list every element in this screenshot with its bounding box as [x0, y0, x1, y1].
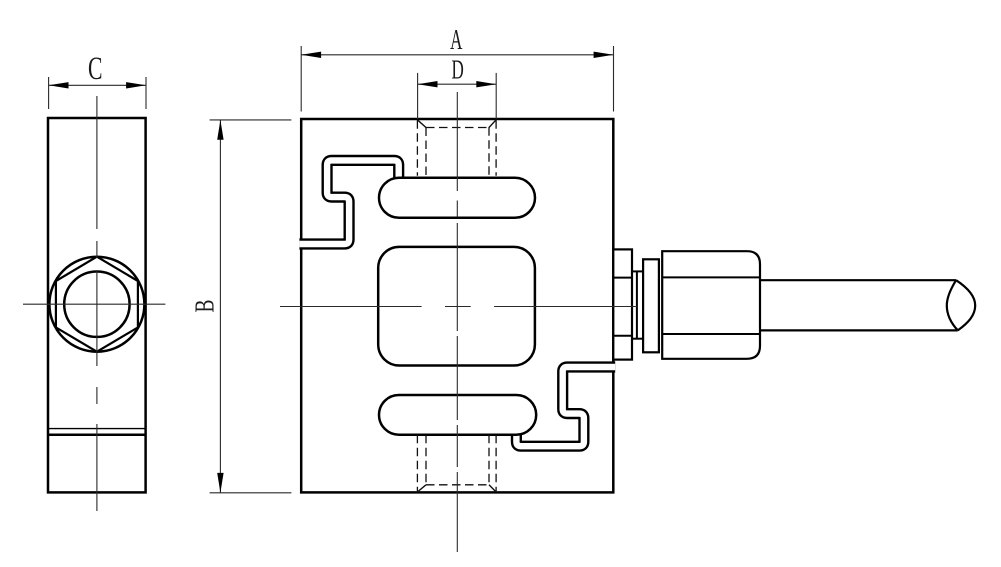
dimension A arrow right	[594, 52, 614, 58]
left view body	[48, 118, 146, 492]
cable end break left arc	[947, 280, 958, 330]
top hole chamfer left	[417, 120, 426, 128]
gland washer top edge	[632, 270, 643, 272]
bottom tapped hole hidden line inner left	[425, 435, 427, 485]
dimension C extension line right	[145, 77, 147, 109]
left view parting line upper	[48, 428, 146, 430]
dimension B extension line top	[210, 119, 292, 121]
bottom hole chamfer right	[489, 485, 496, 492]
svg-text:A: A	[450, 25, 463, 56]
gland washer divider	[636, 271, 638, 338]
top tapped hole hidden chamfer base	[426, 127, 489, 129]
dimension D line	[418, 83, 497, 85]
dimension C line	[49, 84, 146, 86]
right view vertical centerline	[456, 92, 458, 552]
bottom tapped hole hidden line outer left	[416, 435, 418, 492]
gland cap shoulder line upper	[662, 276, 760, 278]
gland washer bottom edge	[632, 338, 643, 340]
hex boss outer circle	[49, 257, 144, 352]
dimension B extension line bottom	[210, 492, 292, 494]
S-cut slot lower-right black	[516, 367, 615, 446]
top tapped hole hidden line outer left	[416, 120, 418, 176]
svg-text:C: C	[88, 51, 103, 87]
dimension B arrow top	[217, 120, 223, 140]
dimension D arrow left	[418, 81, 438, 87]
bottom tapped hole hidden line inner right	[488, 435, 490, 485]
top tapped hole hidden line inner right	[488, 127, 490, 176]
right view horizontal centerline	[280, 306, 637, 308]
dimension A line	[301, 54, 613, 56]
dimension D extension line right	[495, 73, 497, 119]
S-cut slot upper-left black	[299, 160, 398, 244]
gland nut	[643, 259, 659, 352]
bottom tapped hole hidden chamfer base	[426, 484, 489, 486]
dimension B arrow bottom	[217, 473, 223, 493]
dimension A arrow left	[301, 52, 321, 58]
dimension C arrow left	[49, 82, 69, 88]
dimension A extension line right	[613, 46, 615, 112]
dimension D extension line left	[417, 73, 419, 119]
gland cap shoulder line lower	[662, 333, 760, 335]
dimension D arrow right	[476, 81, 496, 87]
S-cut slot upper-left white core	[299, 160, 398, 244]
right view body	[301, 119, 613, 492]
dimension C arrow right	[126, 82, 146, 88]
bottom tapped hole hidden line outer right	[495, 435, 497, 492]
svg-text:D: D	[452, 54, 464, 85]
cable end break right arc	[956, 280, 975, 330]
gland cap	[662, 251, 760, 359]
cable bottom edge	[760, 329, 958, 331]
bottom hole chamfer left	[417, 485, 426, 492]
flange step line lower	[613, 335, 632, 337]
left view vertical centerline	[96, 96, 98, 513]
cable top edge	[760, 279, 956, 281]
hex bore inner circle	[64, 272, 129, 337]
dimension B line	[219, 120, 221, 493]
top tapped hole hidden line inner left	[425, 128, 427, 176]
cable gland flange	[613, 249, 632, 359]
flange step line upper	[613, 277, 632, 279]
dimension A extension line left	[300, 46, 302, 112]
dimension C extension line left	[48, 77, 50, 109]
center square hole	[378, 247, 535, 366]
left view horizontal centerline	[23, 303, 165, 305]
S-cut slot lower-right white core	[516, 367, 615, 446]
hex nut hexagon	[56, 257, 138, 352]
left view parting line lower	[48, 434, 146, 437]
svg-text:B: B	[189, 300, 220, 313]
upper stadium slot	[379, 178, 535, 218]
top tapped hole hidden line outer right	[495, 120, 497, 176]
lower stadium slot	[379, 395, 536, 435]
top hole chamfer right	[489, 120, 496, 128]
